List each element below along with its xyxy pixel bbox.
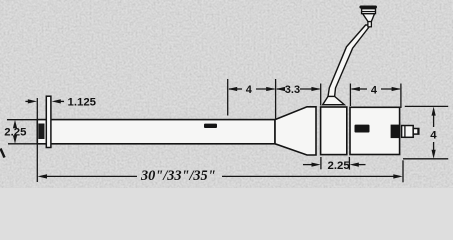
dimension graphics (1, 79, 449, 182)
tube marking (204, 124, 217, 128)
lever arm (328, 25, 371, 97)
lever skirt base (323, 96, 345, 104)
scan smudge bottom-left (1, 149, 5, 158)
svg-text:4: 4 (371, 84, 378, 96)
column housing (350, 107, 400, 154)
knob cone (363, 14, 375, 22)
dim 2.25 left extension lines (7, 119, 37, 121)
overall length extension lines (36, 98, 38, 182)
dim 3.3 right extension (320, 84, 322, 106)
svg-text:1.125: 1.125 (68, 96, 97, 108)
svg-text:3.3: 3.3 (285, 84, 300, 96)
extension line at tube end (275, 79, 277, 119)
overall length dimension line (44, 175, 137, 177)
svg-text:4: 4 (430, 130, 437, 142)
splined shaft end (black block) (38, 124, 44, 140)
dim 2.25 left arrows (14, 124, 16, 127)
dim 4 (right top) line and arrows (352, 88, 367, 90)
knob cap (360, 6, 377, 8)
dim 1.125 arrows (25, 100, 31, 102)
steering shaft tube (37, 120, 275, 144)
dim 4 (right top) extensions (349, 84, 351, 107)
mounting flange plate (46, 96, 51, 147)
dim 2.25 bottom extension lines (320, 157, 322, 169)
dim 2.25 bottom arrows (outside) (303, 164, 314, 166)
shift bowl band (2.25 section) (321, 107, 347, 155)
dim 3.3 line and arrows (277, 88, 283, 90)
housing marking (355, 125, 370, 133)
svg-text:2.25: 2.25 (328, 160, 351, 172)
dim 4 (left) extension lines (227, 79, 229, 116)
dim 4 (vertical right) line and arrows (433, 114, 435, 128)
svg-text:30"/33"/35": 30"/33"/35" (140, 168, 216, 184)
knob rings (362, 9, 376, 14)
dim 4 (vertical right) extension lines (405, 105, 448, 107)
svg-text:2.25: 2.25 (4, 127, 27, 139)
svg-text:4: 4 (246, 84, 253, 96)
tapered cone section (275, 107, 316, 155)
knob stem (368, 21, 372, 27)
dim 4 (left) line and arrows (229, 88, 242, 90)
connector nub (413, 129, 419, 135)
dimension texts (4, 84, 437, 184)
connector ring (402, 126, 414, 138)
ignition block (black) (391, 125, 400, 139)
paper background (0, 0, 453, 188)
